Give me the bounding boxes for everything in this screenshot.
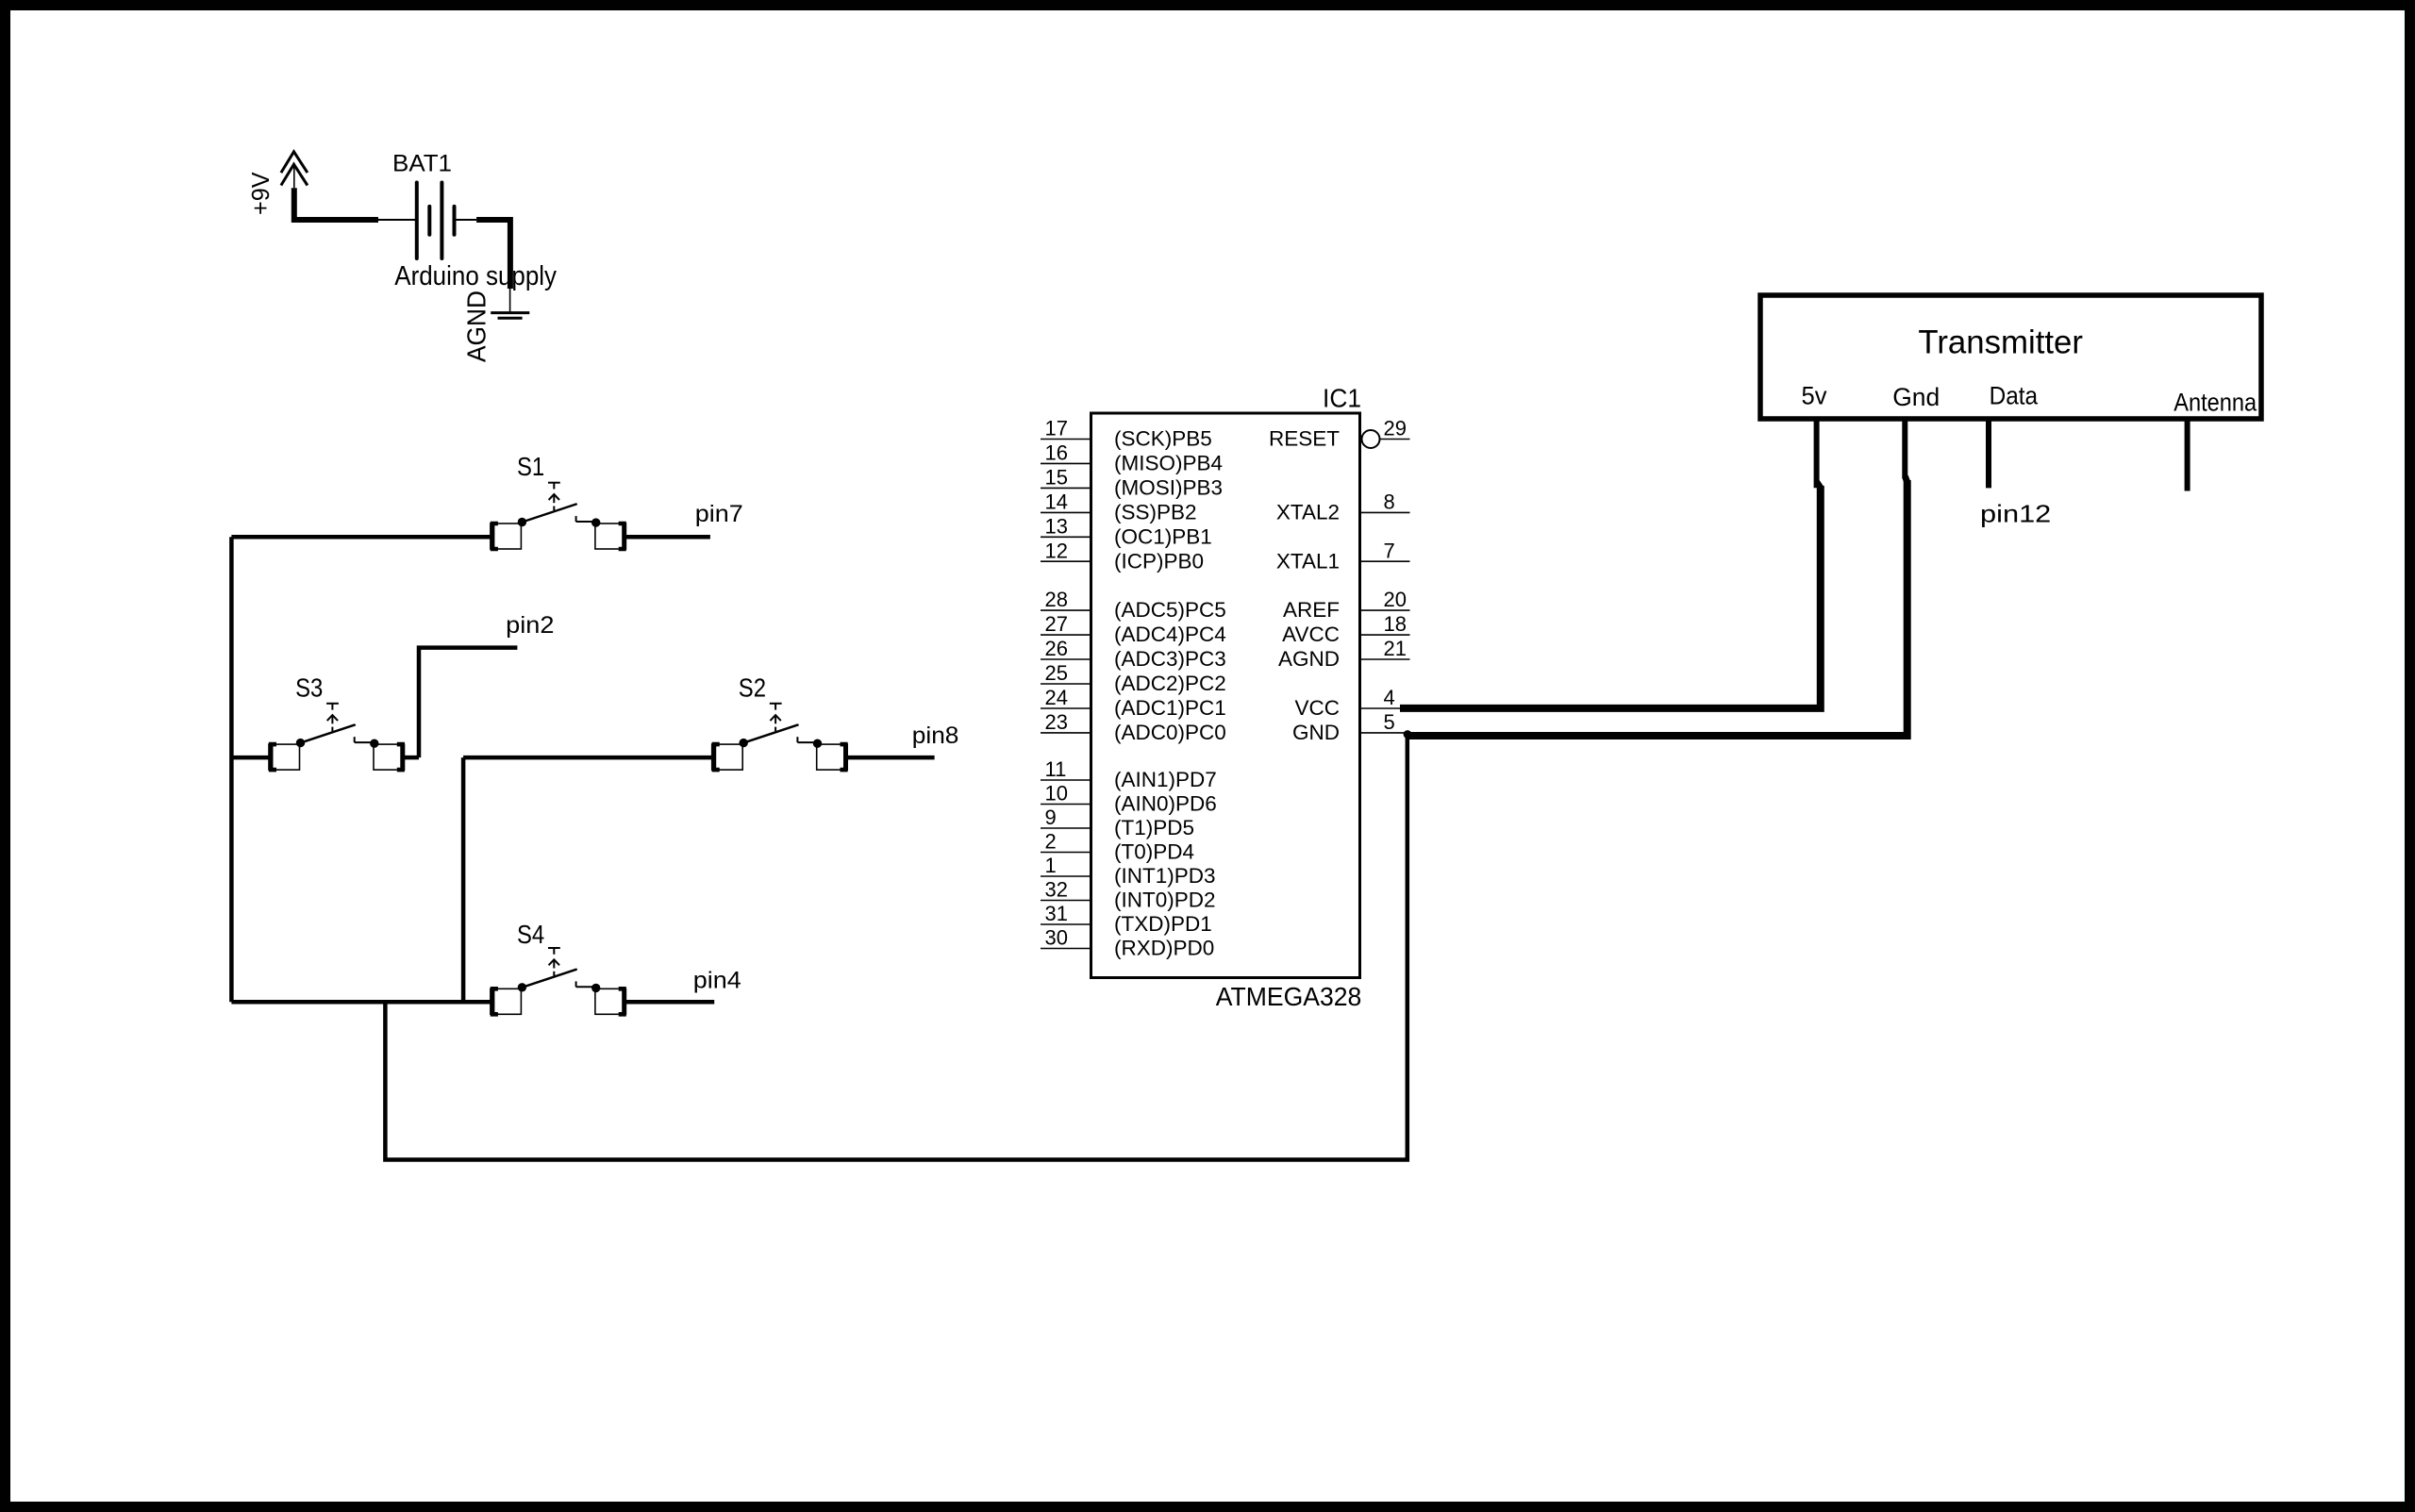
svg-text:28: 28	[1045, 588, 1068, 611]
svg-text:GND: GND	[1292, 721, 1340, 744]
svg-text:IC1: IC1	[1323, 384, 1361, 413]
svg-text:AGND: AGND	[461, 291, 491, 362]
svg-text:32: 32	[1045, 878, 1068, 902]
svg-text:(SS)PB2: (SS)PB2	[1114, 500, 1197, 523]
svg-text:12: 12	[1045, 539, 1068, 562]
svg-text:(MISO)PB4: (MISO)PB4	[1114, 451, 1223, 474]
svg-text:(INT0)PD2: (INT0)PD2	[1114, 889, 1216, 912]
svg-text:18: 18	[1384, 612, 1407, 636]
svg-text:15: 15	[1045, 465, 1068, 489]
svg-text:9: 9	[1045, 806, 1057, 829]
svg-text:RESET: RESET	[1269, 427, 1340, 451]
svg-text:(TXD)PD1: (TXD)PD1	[1114, 912, 1212, 936]
svg-text:5: 5	[1384, 710, 1395, 734]
svg-text:(ICP)PB0: (ICP)PB0	[1114, 549, 1204, 573]
svg-text:(ADC1)PC1: (ADC1)PC1	[1114, 696, 1226, 720]
svg-text:AVCC: AVCC	[1282, 623, 1340, 646]
svg-text:(ADC2)PC2: (ADC2)PC2	[1114, 672, 1226, 695]
svg-text:(ADC5)PC5: (ADC5)PC5	[1114, 598, 1226, 622]
svg-text:(AIN1)PD7: (AIN1)PD7	[1114, 768, 1217, 791]
svg-text:26: 26	[1045, 637, 1068, 660]
svg-text:S4: S4	[517, 920, 544, 949]
svg-text:2: 2	[1045, 830, 1057, 854]
svg-text:Antenna: Antenna	[2173, 388, 2257, 416]
svg-text:(T0)PD4: (T0)PD4	[1114, 840, 1194, 864]
svg-text:5v: 5v	[1802, 382, 1827, 410]
svg-text:(INT1)PD3: (INT1)PD3	[1114, 864, 1216, 888]
svg-text:(MOSI)PB3: (MOSI)PB3	[1114, 475, 1223, 499]
svg-text:+9V: +9V	[248, 173, 275, 216]
svg-text:XTAL2: XTAL2	[1276, 500, 1340, 523]
svg-text:Gnd: Gnd	[1892, 383, 1940, 411]
svg-text:(ADC0)PC0: (ADC0)PC0	[1114, 721, 1226, 744]
svg-text:31: 31	[1045, 902, 1068, 925]
svg-text:Data: Data	[1990, 382, 2039, 410]
svg-text:8: 8	[1384, 490, 1395, 513]
svg-text:ATMEGA328: ATMEGA328	[1216, 982, 1362, 1011]
svg-text:Arduino supply: Arduino supply	[394, 261, 557, 291]
svg-text:(RXD)PD0: (RXD)PD0	[1114, 937, 1214, 960]
svg-text:BAT1: BAT1	[392, 151, 452, 177]
svg-text:1: 1	[1045, 854, 1057, 877]
svg-text:16: 16	[1045, 440, 1068, 464]
svg-text:S1: S1	[517, 452, 544, 481]
svg-text:S2: S2	[739, 673, 766, 703]
svg-text:(ADC4)PC4: (ADC4)PC4	[1114, 623, 1226, 646]
svg-text:20: 20	[1384, 588, 1407, 611]
svg-text:pin7: pin7	[695, 502, 743, 527]
svg-text:(OC1)PB1: (OC1)PB1	[1114, 524, 1212, 548]
svg-text:XTAL1: XTAL1	[1276, 549, 1340, 573]
svg-text:25: 25	[1045, 661, 1068, 685]
svg-text:4: 4	[1384, 686, 1395, 709]
svg-text:13: 13	[1045, 514, 1068, 538]
svg-text:AGND: AGND	[1278, 647, 1340, 671]
svg-text:pin4: pin4	[693, 969, 741, 994]
svg-text:10: 10	[1045, 782, 1068, 806]
svg-text:14: 14	[1045, 490, 1068, 513]
svg-text:pin12: pin12	[1980, 500, 2051, 528]
svg-text:24: 24	[1045, 686, 1068, 709]
svg-text:pin8: pin8	[912, 723, 959, 749]
svg-text:S3: S3	[295, 673, 323, 703]
svg-text:30: 30	[1045, 926, 1068, 950]
svg-text:(SCK)PB5: (SCK)PB5	[1114, 427, 1212, 451]
svg-text:AREF: AREF	[1283, 598, 1340, 622]
svg-text:(T1)PD5: (T1)PD5	[1114, 816, 1194, 839]
svg-text:29: 29	[1384, 417, 1407, 440]
svg-text:7: 7	[1384, 539, 1395, 562]
svg-text:23: 23	[1045, 710, 1068, 734]
svg-text:11: 11	[1045, 757, 1067, 781]
svg-text:27: 27	[1045, 612, 1068, 636]
svg-text:17: 17	[1045, 417, 1068, 440]
svg-text:21: 21	[1384, 637, 1407, 660]
svg-text:(ADC3)PC3: (ADC3)PC3	[1114, 647, 1226, 671]
svg-text:(AIN0)PD6: (AIN0)PD6	[1114, 792, 1217, 816]
svg-text:Transmitter: Transmitter	[1918, 324, 2083, 360]
svg-text:pin2: pin2	[506, 613, 554, 639]
svg-text:VCC: VCC	[1294, 696, 1340, 720]
